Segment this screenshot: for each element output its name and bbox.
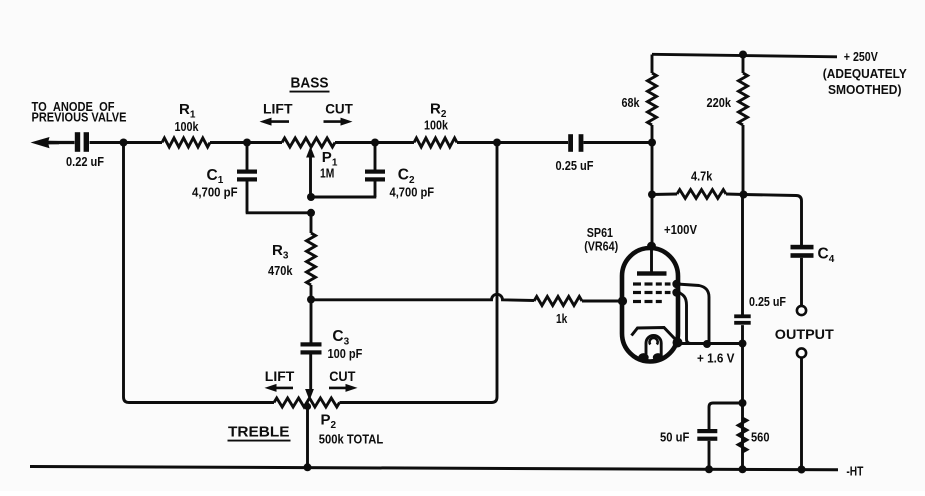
svg-text:-HT: -HT [846,465,863,479]
capacitor 50 uF [697,429,717,433]
potentiometer P2 track 500k [274,398,340,407]
svg-text:(VR64): (VR64) [584,240,618,254]
node: C1 bottom junction [307,209,315,217]
node: grid junction [618,296,627,305]
wire C3 to P2 wiper arrow [309,355,312,393]
wire suppressor grid strap (inner) [677,292,691,344]
resistor R2 100k [414,138,457,147]
svg-text:560: 560 [751,431,770,445]
wire R3 bottom [310,285,313,343]
potentiometer P1 track [282,138,335,147]
bass cut arrow [324,120,343,123]
input arrow to anode of previous valve [31,137,50,148]
tube grid dashes row 3 [633,300,641,303]
svg-text:100 pF: 100 pF [328,347,363,361]
wire left branch vertical [124,143,275,403]
node: anode / 4.7k left junction [648,191,656,199]
svg-text:BASS: BASS [291,75,329,92]
wire C4 branch [744,195,802,246]
node: cathode strap junction [703,340,711,348]
tube U1 SP61 envelope [622,248,678,362]
svg-text:500k TOTAL: 500k TOTAL [319,433,384,447]
wire main input line [40,141,75,144]
svg-text:0.25 uF: 0.25 uF [556,158,594,173]
svg-text:4,700 pF: 4,700 pF [192,186,238,200]
svg-text:CUT: CUT [329,368,356,384]
node: rail junction output [798,466,806,474]
svg-text:SP61: SP61 [587,226,613,240]
svg-text:+ 1.6 V: + 1.6 V [697,351,735,366]
node: R3 bottom junction [307,296,315,304]
svg-text:1k: 1k [556,312,567,326]
top rail +250V [652,54,837,57]
resistor R1 100k [162,138,210,147]
node: rail junction 50uF [705,465,713,473]
tube heater [646,335,661,356]
svg-text:100k: 100k [424,117,449,132]
svg-text:220k: 220k [707,95,732,110]
node: 50uF branch junction [739,399,747,407]
node: suppressor grid tap [672,288,680,296]
capacitor 0.25 uF (output) [734,314,751,318]
resistor 560 [738,418,747,452]
capacitor 0.22 uF (input) [75,132,80,152]
capacitor C1 4,700 pF [246,143,249,171]
capacitor 0.25 uF (coupling) [568,134,573,152]
node: cathode / output column junction [739,340,747,348]
wire anode column down to tube [651,195,654,247]
output terminal (bottom) [797,348,806,357]
wire C1 bottom to node [246,211,311,214]
svg-text:4.7k: 4.7k [691,168,713,183]
svg-text:LIFT: LIFT [265,368,295,384]
wire grid line with hop over vertical wire [311,294,534,300]
wire C2 bottom to wiper node [311,196,376,199]
svg-text:OUTPUT: OUTPUT [775,326,834,342]
wire treble line right + up to R2 node [340,143,498,403]
resistor 220k [742,55,745,74]
tube anode plate [650,246,653,272]
svg-text:4,700 pF: 4,700 pF [390,186,435,200]
node: screen grid tap [672,280,680,288]
node: rail junction at P2 [304,463,312,471]
wire output terminal to rail [800,358,803,470]
svg-text:0.25 uF: 0.25 uF [749,295,786,309]
node: junction left branch [120,139,128,147]
svg-text:PREVIOUS VALVE: PREVIOUS VALVE [32,111,127,125]
svg-text:CUT: CUT [325,101,353,117]
node: P2 wiper bottom [304,403,311,410]
bass lift arrow [270,120,289,123]
svg-text:68k: 68k [622,95,641,110]
node: P1 wiper / C2 junction [307,193,315,201]
resistor 4.7k [652,193,677,196]
capacitor C4 [791,245,814,250]
wire cathode line [676,342,744,345]
wire R3 column top [310,213,313,233]
wire 1k to grid [582,300,622,303]
capacitor C2 4,700 pF [374,143,377,170]
output terminal (top) [797,306,806,315]
node: rail junction 560 [739,465,747,473]
svg-text:50 uF: 50 uF [660,431,690,445]
node: 4.7k right / 220k bottom junction [740,191,748,199]
tube cathode [632,328,676,340]
tube grid dashes row 2 [633,291,641,294]
svg-text:100k: 100k [175,119,200,134]
wire P1 wiper [309,155,312,197]
svg-text:TREBLE: TREBLE [228,424,290,441]
node: C2 top junction [371,139,379,147]
resistor 68k [651,55,654,74]
wire 50uF branch [709,403,743,429]
wire P2 wiper to bottom rail [306,403,309,468]
node: R2 right junction [493,139,501,147]
wire output column [741,196,744,315]
svg-text:+100V: +100V [664,222,697,237]
svg-text:+ 250V: + 250V [844,49,878,64]
node: 220k top junction [739,51,747,59]
node: C1 top junction [243,139,251,147]
bottom rail -HT [30,467,838,470]
treble cut arrow [329,387,347,390]
svg-text:SMOOTHED): SMOOTHED) [828,82,902,97]
resistor 1k [534,297,582,306]
svg-text:0.22 uF: 0.22 uF [66,154,104,169]
tube grid dashes row 1 [633,282,641,285]
resistor R3 470k [307,233,316,285]
svg-text:LIFT: LIFT [263,101,293,117]
svg-text:1M: 1M [320,166,334,181]
capacitor C3 100 pF [301,342,322,346]
wire screen grid strap (outer) [677,284,709,344]
svg-text:470k: 470k [268,263,293,278]
svg-text:(ADEQUATELY: (ADEQUATELY [823,66,907,81]
treble lift arrow [275,387,293,390]
node: anode column top junction [648,139,656,147]
node: tube top [647,242,656,251]
